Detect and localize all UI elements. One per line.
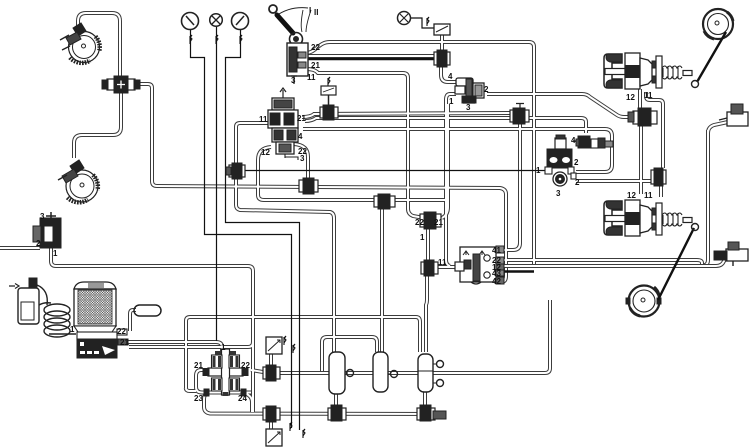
svg-text:12: 12 bbox=[626, 93, 635, 102]
svg-text:3: 3 bbox=[291, 76, 296, 85]
svg-text:1: 1 bbox=[536, 166, 541, 175]
svg-text:22: 22 bbox=[311, 43, 320, 52]
svg-text:1: 1 bbox=[221, 343, 226, 352]
svg-text:1: 1 bbox=[420, 233, 425, 242]
svg-text:3: 3 bbox=[466, 103, 471, 112]
svg-text:22: 22 bbox=[117, 327, 126, 336]
svg-text:2: 2 bbox=[484, 85, 489, 94]
svg-text:I: I bbox=[309, 6, 311, 15]
svg-text:3: 3 bbox=[556, 189, 561, 198]
svg-text:1: 1 bbox=[53, 249, 58, 258]
svg-text:23: 23 bbox=[194, 394, 203, 403]
svg-text:12: 12 bbox=[627, 191, 636, 200]
svg-text:11: 11 bbox=[644, 91, 653, 100]
svg-text:II: II bbox=[314, 8, 318, 17]
svg-text:2: 2 bbox=[575, 178, 580, 187]
svg-text:2: 2 bbox=[36, 239, 41, 248]
svg-text:3: 3 bbox=[300, 154, 305, 163]
svg-text:41: 41 bbox=[492, 246, 501, 255]
svg-text:4: 4 bbox=[298, 132, 303, 141]
svg-text:21: 21 bbox=[311, 61, 320, 70]
svg-text:1: 1 bbox=[449, 97, 454, 106]
svg-text:24: 24 bbox=[238, 394, 247, 403]
svg-text:3: 3 bbox=[40, 212, 45, 221]
svg-text:4: 4 bbox=[448, 72, 453, 81]
svg-text:22: 22 bbox=[415, 218, 424, 227]
svg-text:22: 22 bbox=[241, 361, 250, 370]
svg-text:11: 11 bbox=[438, 258, 447, 267]
svg-text:21: 21 bbox=[194, 361, 203, 370]
svg-text:4: 4 bbox=[571, 136, 576, 145]
svg-text:21: 21 bbox=[120, 338, 129, 347]
svg-text:11: 11 bbox=[644, 191, 653, 200]
svg-text:12: 12 bbox=[261, 148, 270, 157]
svg-text:1: 1 bbox=[70, 325, 75, 334]
svg-text:2: 2 bbox=[574, 158, 579, 167]
svg-text:21: 21 bbox=[434, 218, 443, 227]
svg-text:42: 42 bbox=[492, 277, 501, 286]
svg-text:11: 11 bbox=[259, 115, 268, 124]
svg-text:21: 21 bbox=[297, 114, 306, 123]
svg-text:11: 11 bbox=[307, 73, 316, 82]
